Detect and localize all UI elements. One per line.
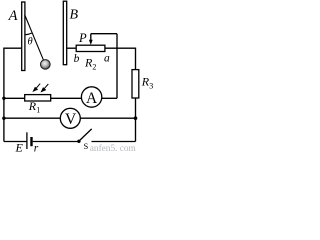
svg-text:S: S (84, 141, 89, 151)
svg-text:1: 1 (36, 105, 40, 114)
svg-text:b: b (74, 53, 80, 65)
rheostat R2 (76, 45, 105, 51)
svg-text:V: V (65, 111, 77, 128)
switch pivot dot (77, 140, 80, 143)
angle arc (25, 33, 32, 35)
svg-text:A: A (86, 90, 98, 107)
slider P wire (91, 33, 117, 35)
light arrows onto R1 (33, 84, 48, 92)
bottom rail wire left (4, 141, 27, 143)
wire voltmeter to R3 branch (80, 117, 135, 119)
wire switch to bottom right corner (92, 141, 136, 143)
battery short plate (30, 137, 32, 146)
slider P arrowhead (89, 40, 93, 45)
resistor R1 (photoresistor) (25, 95, 51, 101)
wire ammeter to right riser (102, 97, 117, 99)
battery long plate (26, 132, 28, 149)
wire battery to switch (33, 141, 79, 143)
svg-text:θ: θ (28, 37, 33, 48)
wire R1 to ammeter (51, 97, 82, 99)
svg-text:A: A (8, 8, 18, 24)
wire left rail to R1 (4, 97, 25, 99)
svg-text:B: B (70, 8, 79, 23)
node dot left rail / voltmeter row (2, 117, 5, 120)
svg-text:2: 2 (92, 62, 96, 71)
wire plate B to R2 terminal b (67, 47, 77, 49)
plate B (63, 1, 66, 64)
resistor R3 (132, 70, 139, 98)
node dot left rail / R1 row (2, 97, 5, 100)
svg-text:anfen5. com: anfen5. com (90, 143, 137, 154)
voltmeter rail wire (4, 117, 60, 119)
right riser wire (116, 34, 118, 99)
voltmeter V (60, 108, 80, 128)
svg-text:P: P (78, 31, 87, 45)
svg-text:E: E (15, 141, 24, 155)
svg-text:a: a (104, 52, 110, 64)
wire R3 bottom to bottom rail (135, 98, 137, 142)
pendulum ball (41, 60, 51, 70)
pendulum string (25, 15, 44, 61)
node dot V rail / R3 branch (134, 116, 138, 120)
ammeter A (81, 87, 101, 107)
switch blade (79, 129, 92, 141)
wire R2 terminal a to R3 branch (105, 48, 136, 69)
plate A (22, 2, 25, 71)
svg-text:3: 3 (149, 82, 153, 91)
svg-text:r: r (34, 142, 39, 154)
wire plate A to left rail (4, 48, 22, 141)
